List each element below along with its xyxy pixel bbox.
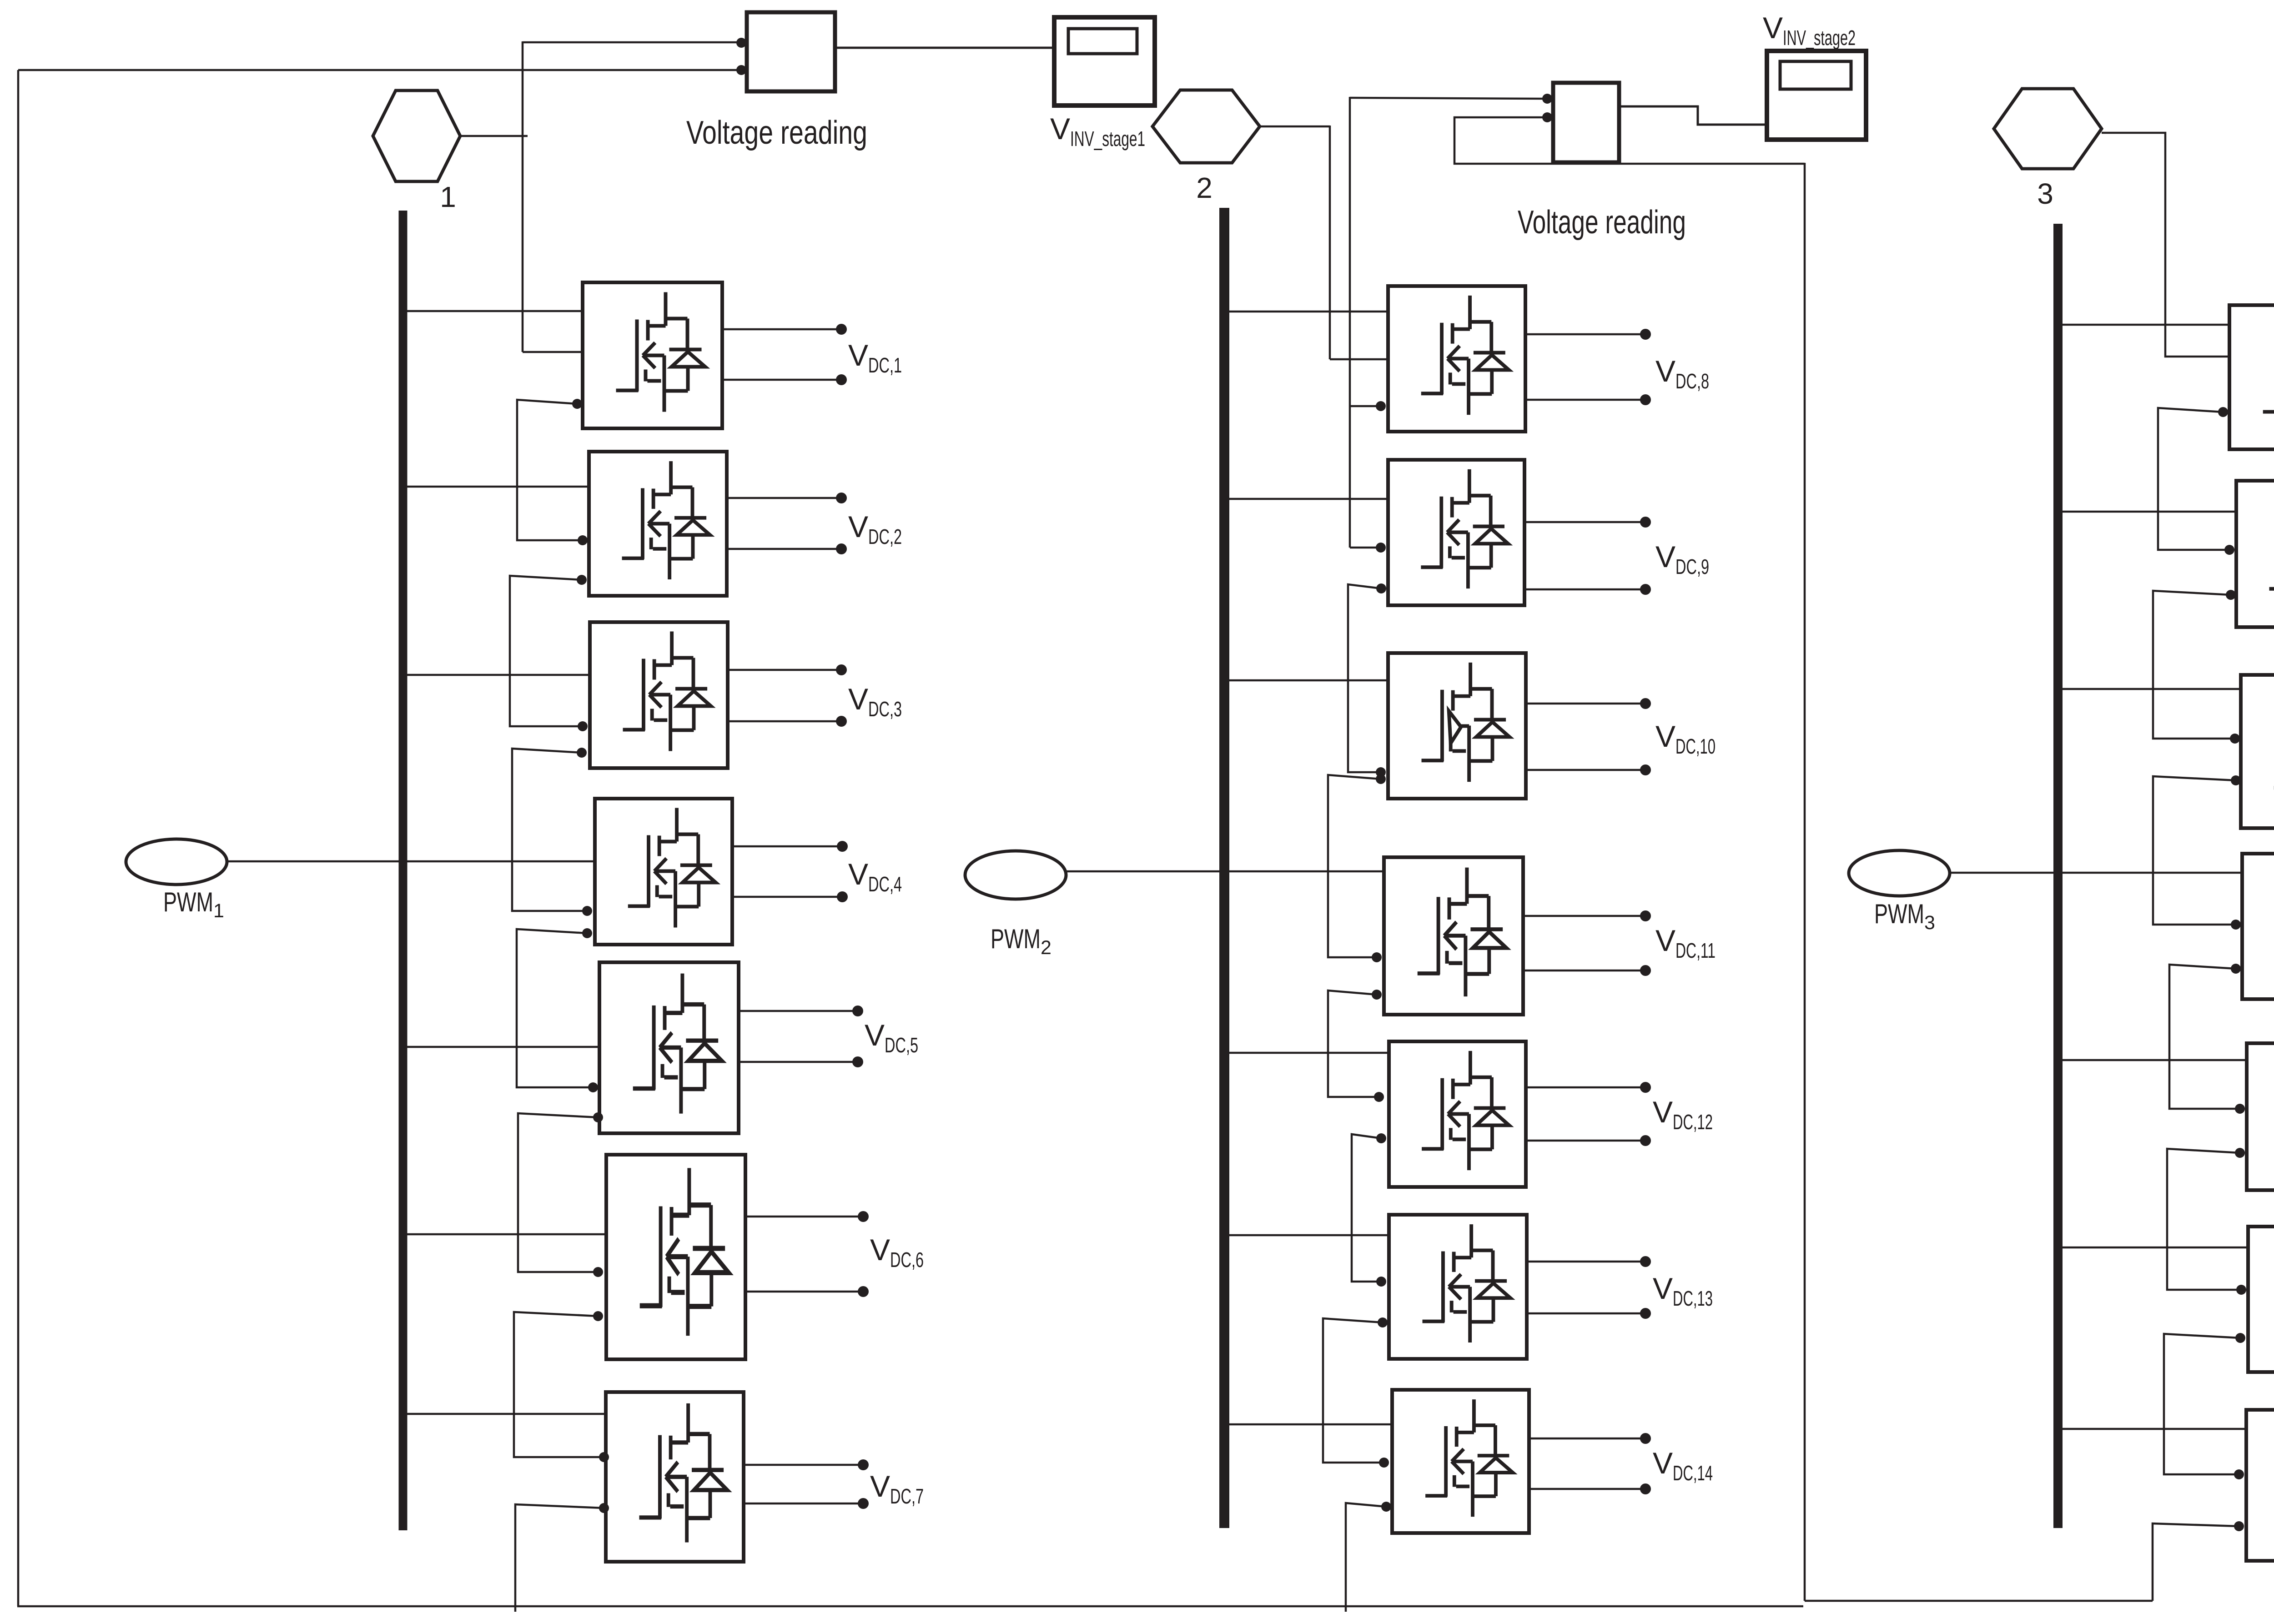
wire chain M20-M21 xyxy=(2164,1334,2240,1474)
subsystem U1 Voltage reading xyxy=(747,12,835,91)
wire M1 output + xyxy=(722,328,841,331)
node port dot M19.1 xyxy=(2235,1104,2245,1114)
node port dot M3.2 xyxy=(577,748,587,758)
node port dot M7.1 xyxy=(599,1452,609,1462)
wire M13 output + xyxy=(1527,1261,1645,1263)
igbt symbol inside M4 xyxy=(628,808,716,928)
terminal dot M11 - xyxy=(1640,965,1651,976)
wire M8 output - xyxy=(1525,399,1645,401)
node port dot M5.2 xyxy=(593,1112,603,1122)
wire M4 output + xyxy=(732,845,842,848)
terminal dot M12 + xyxy=(1640,1082,1651,1093)
node port dot M13.1 xyxy=(1376,1277,1386,1287)
subsystem U2 Voltage reading xyxy=(1553,83,1619,162)
svg-text:VDC,8: VDC,8 xyxy=(1655,354,1709,393)
bus 2 xyxy=(1219,208,1229,1528)
svg-text:1: 1 xyxy=(440,181,456,213)
node port dot M20.2 xyxy=(2235,1333,2245,1343)
node port dot M14.1 xyxy=(1379,1458,1389,1468)
wire PWM3 to M18 xyxy=(1950,872,2242,874)
converter block M13 xyxy=(1389,1215,1527,1359)
wire chain M2-M3 xyxy=(510,576,582,726)
wire VR1 upper sense horizontal xyxy=(523,41,738,44)
wire M3 output + xyxy=(728,669,841,671)
svg-text:VDC,7: VDC,7 xyxy=(870,1469,924,1508)
converter block M2 xyxy=(589,452,727,596)
wire chain M10-M11 xyxy=(1328,775,1381,957)
port hexagon 1 xyxy=(373,91,460,181)
node port dot M17.2 xyxy=(2231,775,2241,785)
igbt symbol inside M10 xyxy=(1422,663,1509,782)
igbt symbol inside M9 xyxy=(1421,469,1508,588)
wire left border return xyxy=(17,70,20,1606)
node port dot M10.1 xyxy=(1376,767,1386,777)
wire bus tap to M6 xyxy=(402,1233,606,1236)
wire stub to M8 dot xyxy=(1350,405,1377,407)
node port dot M8.1 xyxy=(1376,401,1386,411)
node port dot M11.1 xyxy=(1372,952,1382,962)
terminal dot M14 + xyxy=(1640,1433,1651,1444)
igbt symbol inside M11 xyxy=(1418,868,1506,997)
wire chain M1-M2 xyxy=(517,400,579,540)
wire hexagon-2 vertical xyxy=(1329,126,1331,359)
terminal dot M6 + xyxy=(858,1211,869,1222)
wire bus tap to M13 xyxy=(1224,1234,1389,1237)
svg-text:VDC,5: VDC,5 xyxy=(865,1018,918,1057)
svg-text:VDC,12: VDC,12 xyxy=(1653,1095,1713,1134)
terminal dot M7 + xyxy=(858,1459,869,1470)
igbt symbol inside M5 xyxy=(633,974,722,1114)
converter block M16 xyxy=(2236,481,2274,627)
terminal dot M7 - xyxy=(858,1498,869,1509)
node VR2 input + xyxy=(1542,94,1552,104)
svg-text:VDC,9: VDC,9 xyxy=(1655,540,1709,578)
svg-text:VDC,6: VDC,6 xyxy=(870,1233,924,1272)
converter block M8 xyxy=(1388,286,1525,432)
node port dot M11.2 xyxy=(1372,990,1382,1000)
wire bus tap to M9 xyxy=(1224,498,1388,500)
terminal dot M2 + xyxy=(836,493,847,503)
svg-text:VINV_stage2: VINV_stage2 xyxy=(1763,11,1856,50)
node port dot M2.1 xyxy=(578,535,588,545)
wire M11 output - xyxy=(1523,970,1645,972)
svg-text:Voltage reading: Voltage reading xyxy=(1518,204,1686,241)
port hexagon 2 xyxy=(1152,90,1260,163)
igbt symbol inside M2 xyxy=(622,461,710,579)
source ellipse PWM2 xyxy=(965,851,1066,899)
node port dot M7.2 xyxy=(599,1503,609,1513)
wire M9 output + xyxy=(1524,521,1645,523)
terminal dot M11 + xyxy=(1640,910,1651,921)
node port dot M5.1 xyxy=(588,1082,598,1092)
wire M11 output + xyxy=(1523,915,1645,917)
wire sense return bottom xyxy=(1805,1600,2153,1602)
node port dot M12.1 xyxy=(1374,1092,1384,1102)
wire hexagon 2 out xyxy=(1260,126,1330,128)
terminal dot M8 - xyxy=(1640,394,1651,405)
terminal dot M5 + xyxy=(852,1006,863,1016)
node VR2 input - xyxy=(1542,112,1552,122)
wire M5 output - xyxy=(739,1061,858,1063)
wire into block M8 left edge xyxy=(1330,358,1388,361)
converter block M9 xyxy=(1388,460,1524,605)
wire M10 output - xyxy=(1526,769,1645,771)
wire bus tap to M14 xyxy=(1224,1423,1392,1426)
svg-text:VDC,3: VDC,3 xyxy=(848,682,902,721)
terminal dot M9 - xyxy=(1640,584,1651,595)
igbt symbol inside M1 xyxy=(616,292,705,412)
converter block M12 xyxy=(1389,1041,1526,1187)
wire M2 output + xyxy=(727,497,841,499)
terminal dot M4 + xyxy=(837,841,848,852)
svg-text:VDC,10: VDC,10 xyxy=(1655,719,1716,758)
wire VR2 lower sense loop xyxy=(1454,117,1805,164)
bus 1 xyxy=(399,211,408,1530)
wire node-1 vertical xyxy=(522,41,524,352)
wire chain M18-M19 xyxy=(2169,965,2236,1109)
node port dot M4.1 xyxy=(582,906,592,916)
terminal dot M8 + xyxy=(1640,329,1651,340)
wire stub to M9 dot xyxy=(1350,547,1377,549)
svg-text:PWM1: PWM1 xyxy=(163,887,224,922)
svg-text:2: 2 xyxy=(1196,171,1212,204)
wire bus tap to M19 xyxy=(2057,1059,2247,1061)
wire M7 output - xyxy=(744,1503,863,1505)
igbt symbol inside M14 xyxy=(1425,1399,1513,1517)
bus 3 xyxy=(2053,224,2063,1528)
wire chain M19-M20 xyxy=(2167,1149,2240,1290)
terminal dot M3 + xyxy=(836,664,847,675)
terminal dot M4 - xyxy=(837,891,848,902)
wire chain M16-M17 xyxy=(2153,591,2231,739)
node port dot M3.1 xyxy=(578,721,588,731)
converter block M3 xyxy=(590,622,728,768)
wire VR1 lower sense from left border xyxy=(18,69,737,71)
svg-text:VDC,11: VDC,11 xyxy=(1655,924,1716,962)
wire chain M15-M16 xyxy=(2158,408,2226,550)
node port dot M9.1 xyxy=(1376,543,1386,553)
converter block M18 xyxy=(2242,854,2274,999)
wire chain M17-M18 xyxy=(2153,776,2236,925)
node port dot M15.1 xyxy=(2218,407,2228,417)
source ellipse PWM3 xyxy=(1849,850,1950,896)
converter block M1 xyxy=(583,282,722,428)
wire bottom border return xyxy=(17,1605,1803,1608)
node port dot M21.1 xyxy=(2234,1469,2244,1479)
converter block M4 xyxy=(595,799,732,945)
converter block M7 xyxy=(606,1392,744,1562)
wire chain M7 to bottom return xyxy=(515,1504,604,1612)
wire VR2/chain vertical xyxy=(1349,97,1351,548)
wire M4 output - xyxy=(732,896,842,898)
wire M14 output + xyxy=(1529,1438,1645,1440)
node port dot M6.1 xyxy=(593,1267,603,1277)
wire bus tap to M5 xyxy=(402,1046,599,1048)
node port dot M10.2 xyxy=(1376,774,1386,784)
wire VR2 to scope2 xyxy=(1619,106,1767,125)
node port dot M2.2 xyxy=(577,575,587,585)
terminal dot M5 - xyxy=(852,1056,863,1067)
node port dot M18.2 xyxy=(2231,964,2241,974)
igbt symbol inside M15 xyxy=(2263,315,2274,433)
wire VR2 upper sense horizontal xyxy=(1350,98,1543,99)
terminal dot M9 + xyxy=(1640,517,1651,528)
wire M12 output - xyxy=(1526,1140,1645,1142)
svg-text:VDC,2: VDC,2 xyxy=(848,510,902,548)
wire sense return vertical xyxy=(1804,163,1806,1601)
port hexagon 3 xyxy=(1994,89,2102,169)
svg-text:VDC,1: VDC,1 xyxy=(848,338,902,377)
wire M10 output + xyxy=(1526,703,1645,705)
converter block M11 xyxy=(1384,857,1523,1015)
wire PWM2 to M11 xyxy=(1066,870,1384,873)
igbt symbol inside M16 xyxy=(2269,490,2274,610)
terminal dot M10 + xyxy=(1640,698,1651,709)
wire chain M3-M4 xyxy=(512,749,584,911)
wire chain M4-M5 xyxy=(517,929,590,1087)
node port dot M4.2 xyxy=(582,928,592,938)
wire M14 output - xyxy=(1529,1488,1645,1490)
node VR1 input + xyxy=(736,38,746,48)
converter block M17 xyxy=(2241,675,2274,828)
terminal dot M14 - xyxy=(1640,1483,1651,1494)
node port dot M19.2 xyxy=(2235,1148,2245,1158)
wire chain M11-M12 xyxy=(1328,990,1377,1097)
terminal dot M10 - xyxy=(1640,764,1651,775)
wire M6 output + xyxy=(745,1216,863,1218)
node port dot M21.2 xyxy=(2234,1521,2244,1531)
wire bus tap to M12 xyxy=(1224,1052,1389,1054)
svg-text:Voltage reading: Voltage reading xyxy=(686,115,867,151)
terminal dot M3 - xyxy=(836,716,847,727)
wire M6 output - xyxy=(745,1291,863,1293)
wire bus tap to M17 xyxy=(2057,688,2241,690)
wire bus tap to M7 xyxy=(402,1413,606,1415)
wire bus tap to M2 xyxy=(402,486,589,488)
wire bus tap to M10 xyxy=(1224,679,1388,682)
terminal dot M2 - xyxy=(836,543,847,554)
node VR1 input - xyxy=(736,65,746,75)
wire bus tap to M3 xyxy=(402,674,590,676)
converter block M10 xyxy=(1388,653,1526,799)
wire M13 output - xyxy=(1527,1312,1645,1315)
igbt symbol inside M8 xyxy=(1421,296,1509,415)
wire into block M1 left edge xyxy=(523,351,583,353)
node port dot M20.1 xyxy=(2236,1285,2246,1295)
svg-text:VINV_stage1: VINV_stage1 xyxy=(1050,112,1145,151)
node port dot M9.2 xyxy=(1376,583,1386,593)
wire M1 output - xyxy=(722,379,841,381)
wire bus tap to M8 xyxy=(1224,311,1388,313)
node port dot M13.2 xyxy=(1378,1317,1388,1327)
node port dot M14.2 xyxy=(1381,1502,1391,1512)
converter block M19 xyxy=(2247,1043,2274,1190)
source ellipse PWM1 xyxy=(126,839,227,885)
scope V_INV_stage2 xyxy=(1767,51,1866,140)
converter block M15 xyxy=(2229,305,2274,449)
wire bus tap to M21 xyxy=(2057,1428,2246,1430)
svg-text:VDC,13: VDC,13 xyxy=(1653,1272,1713,1310)
wire M8 output + xyxy=(1525,333,1645,336)
wire chain M21 to sense return xyxy=(2153,1523,2239,1601)
igbt symbol inside M12 xyxy=(1422,1051,1509,1170)
wire bus tap to M1 xyxy=(402,310,583,312)
svg-text:VDC,14: VDC,14 xyxy=(1653,1446,1713,1485)
wire hexagon 3 to M15 xyxy=(2102,133,2229,357)
svg-text:3: 3 xyxy=(2037,177,2053,210)
wire M9 output - xyxy=(1524,588,1645,591)
wire bus tap to M16 xyxy=(2057,511,2236,513)
converter block M21 xyxy=(2246,1410,2274,1561)
wire bus tap to M20 xyxy=(2057,1247,2248,1249)
node port dot M16.1 xyxy=(2224,545,2234,555)
wire M3 output - xyxy=(728,720,841,723)
node port dot M18.1 xyxy=(2231,920,2241,930)
wire chain M5-M6 xyxy=(518,1113,598,1272)
wire chain M12-M13 xyxy=(1352,1134,1381,1282)
igbt symbol inside M7 xyxy=(639,1403,727,1543)
scope1 screen xyxy=(1068,29,1137,54)
igbt symbol inside M3 xyxy=(623,632,711,751)
terminal dot M1 - xyxy=(836,374,847,385)
converter block M14 xyxy=(1392,1390,1529,1533)
wire M12 output + xyxy=(1526,1086,1645,1089)
node port dot M16.2 xyxy=(2226,590,2236,600)
svg-text:PWM3: PWM3 xyxy=(1874,899,1935,934)
node port dot M17.1 xyxy=(2230,734,2240,744)
wire chain M9-M10 xyxy=(1348,584,1381,772)
terminal dot M13 - xyxy=(1640,1308,1651,1319)
terminal dot M13 + xyxy=(1640,1256,1651,1267)
node port dot M1.1 xyxy=(572,399,582,409)
converter block M5 xyxy=(599,962,739,1133)
wire VR1 to scope1 xyxy=(835,47,1054,49)
wire chain M13-M14 xyxy=(1323,1318,1383,1463)
node port dot M6.2 xyxy=(593,1311,603,1321)
wire M2 output - xyxy=(727,548,841,550)
terminal dot M1 + xyxy=(836,324,847,335)
terminal dot M6 - xyxy=(858,1286,869,1297)
wire M7 output + xyxy=(744,1464,863,1466)
node port dot M12.2 xyxy=(1376,1133,1386,1143)
scope V_INV_stage1 xyxy=(1054,17,1155,106)
wire bus tap to M15 xyxy=(2057,324,2229,326)
converter block M6 xyxy=(606,1155,745,1359)
wire chain M6-M7 xyxy=(514,1312,601,1457)
wire M5 output + xyxy=(739,1010,858,1012)
igbt symbol inside M6 xyxy=(640,1168,729,1336)
svg-text:VDC,4: VDC,4 xyxy=(848,857,902,896)
igbt symbol inside M13 xyxy=(1423,1224,1510,1342)
svg-text:PWM2: PWM2 xyxy=(991,924,1051,959)
scope2 screen xyxy=(1780,61,1851,89)
wire chain M14 to bottom return xyxy=(1346,1503,1386,1612)
converter block M20 xyxy=(2248,1227,2274,1372)
wire hexagon-1 stub xyxy=(460,135,528,137)
terminal dot M12 - xyxy=(1640,1135,1651,1146)
wire PWM1 to M4 xyxy=(226,860,595,863)
